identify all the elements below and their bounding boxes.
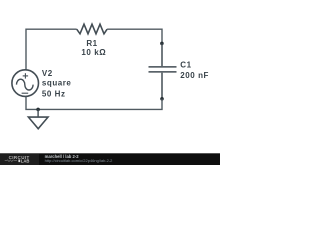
wire bottom-right segment [38, 99, 162, 110]
footer CircuitLab logo [0, 154, 39, 165]
node junction dot ground [36, 108, 40, 112]
svg-text:10 kΩ: 10 kΩ [81, 48, 106, 57]
resistor R1 [77, 24, 107, 34]
wire top-right segment [107, 29, 162, 43]
svg-text:http://circuitlab.com/c/22p46n: http://circuitlab.com/c/22p46ng/lab-2-2 [45, 158, 114, 163]
svg-text:LAB: LAB [21, 158, 30, 163]
voltage source V2 [12, 70, 39, 97]
wire top-left segment [26, 29, 77, 70]
svg-text:R1: R1 [86, 39, 97, 48]
svg-text:50 Hz: 50 Hz [42, 90, 66, 99]
svg-text:square: square [42, 79, 72, 88]
footer bar [0, 153, 220, 165]
svg-text:200 nF: 200 nF [180, 71, 209, 80]
capacitor C1 [149, 43, 177, 98]
node junction dot bottom of C1 [160, 97, 164, 101]
wire bottom-left segment [26, 96, 38, 109]
svg-text:C1: C1 [180, 60, 191, 69]
node junction dot top of C1 [160, 42, 164, 46]
ground [28, 109, 48, 128]
svg-text:V2: V2 [42, 69, 53, 78]
